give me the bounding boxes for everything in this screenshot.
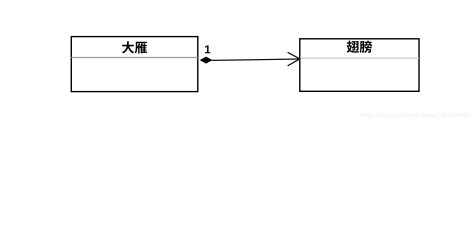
separator line in 翅膀 box bbox=[300, 57, 419, 59]
class title 翅膀 bbox=[347, 41, 359, 53]
class box 翅膀 bbox=[300, 39, 419, 92]
association line bbox=[212, 59, 300, 60]
composition diamond bbox=[201, 57, 212, 63]
arrowhead bbox=[288, 52, 300, 66]
multiplicity label 1 bbox=[205, 45, 210, 53]
separator line in 大雁 box bbox=[71, 57, 198, 59]
watermark bbox=[361, 113, 469, 119]
class title 大雁 bbox=[122, 41, 134, 53]
class box 大雁 bbox=[71, 37, 198, 92]
